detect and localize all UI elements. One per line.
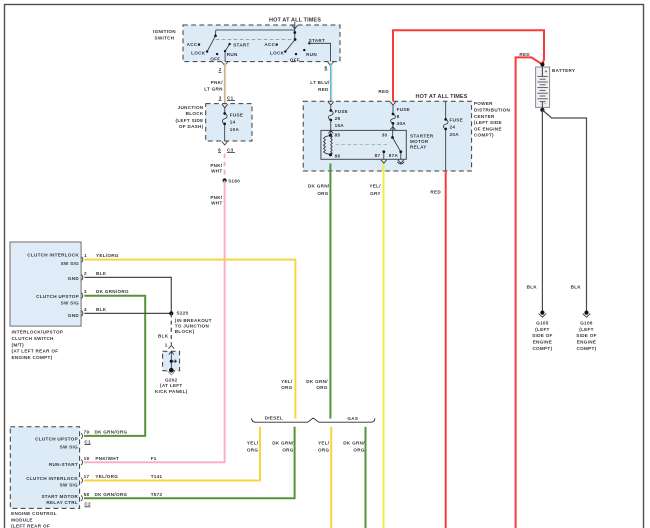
- svg-text:15A: 15A: [335, 123, 345, 128]
- wire DK GRN/ORG pin58 to brace: [84, 427, 295, 498]
- ignition switch pole 1 lever: [214, 34, 217, 37]
- wire BLK pin4 to S220: [84, 312, 171, 314]
- svg-text:G202: G202: [165, 378, 178, 383]
- ground G106: [584, 311, 588, 315]
- fuse 28 element: [328, 102, 334, 111]
- svg-text:SW SIG: SW SIG: [61, 301, 80, 306]
- svg-text:8: 8: [218, 147, 221, 152]
- svg-text:S220: S220: [177, 310, 189, 315]
- ECM pin 58 connector: [81, 495, 82, 501]
- svg-text:OFF: OFF: [210, 57, 220, 62]
- svg-text:BLK: BLK: [96, 307, 107, 312]
- svg-text:GND: GND: [68, 313, 79, 318]
- svg-text:ACC: ACC: [187, 42, 198, 47]
- svg-text:ORG: ORG: [281, 385, 292, 390]
- svg-text:YEL/ORG: YEL/ORG: [96, 253, 119, 258]
- svg-text:DK GRN/: DK GRN/: [306, 379, 328, 384]
- fuse 14 element: [222, 104, 228, 113]
- svg-text:C2: C2: [84, 502, 91, 507]
- ECM pin 19 connector: [81, 460, 82, 466]
- svg-text:FUSE: FUSE: [335, 109, 348, 114]
- svg-text:CLUTCH INTERLOCK: CLUTCH INTERLOCK: [27, 252, 79, 257]
- ECM pin 79 connector: [81, 433, 82, 439]
- svg-text:SWITCH: SWITCH: [155, 35, 175, 40]
- relay pin 87: [382, 150, 385, 153]
- svg-text:BLK: BLK: [96, 271, 107, 276]
- svg-text:C1: C1: [84, 439, 91, 444]
- ignition switch pole 2 lever: [293, 31, 296, 34]
- svg-text:TO JUNCTION: TO JUNCTION: [175, 324, 210, 329]
- svg-text:79: 79: [84, 430, 90, 435]
- svg-text:(LEFT: (LEFT: [535, 327, 550, 332]
- brace diesel/gas split: [252, 418, 375, 422]
- svg-text:ENGINE COMPT): ENGINE COMPT): [12, 355, 53, 360]
- svg-text:RUN: RUN: [306, 52, 317, 57]
- ignition switch box: [183, 25, 340, 62]
- svg-text:F1: F1: [151, 456, 157, 461]
- wire YEL/ORG gas branch: [330, 427, 332, 528]
- svg-text:40A: 40A: [397, 121, 407, 126]
- fuse 24 element: [445, 101, 447, 119]
- svg-text:GND: GND: [68, 276, 79, 281]
- svg-text:ACC: ACC: [264, 42, 275, 47]
- svg-text:ORG: ORG: [282, 447, 293, 452]
- svg-text:ORG: ORG: [353, 447, 364, 452]
- pin 2 connector: [82, 275, 83, 281]
- wire LT BLU/RED pin6 to PDC: [330, 63, 332, 101]
- svg-text:PNK/WHT: PNK/WHT: [95, 456, 119, 461]
- svg-text:FUSE: FUSE: [397, 107, 410, 112]
- svg-text:C3: C3: [227, 147, 234, 152]
- svg-text:CLUTCH UPSTOP: CLUTCH UPSTOP: [36, 294, 79, 299]
- svg-text:ORG: ORG: [318, 447, 329, 452]
- svg-text:START: START: [233, 42, 249, 47]
- wire YEL/GRY from relay 87: [383, 164, 385, 528]
- svg-text:MODULE: MODULE: [11, 517, 33, 522]
- svg-text:ORG: ORG: [316, 385, 327, 390]
- svg-text:RELAY CTRL: RELAY CTRL: [46, 500, 78, 505]
- svg-text:DK GRN/: DK GRN/: [272, 441, 294, 446]
- pin 2 exit arrow of ignition switch: [222, 62, 228, 66]
- wire RED battery feed (long right): [516, 57, 543, 528]
- wire YEL/ORG pin1: [84, 260, 295, 419]
- svg-text:3: 3: [219, 95, 222, 100]
- pole 1 START-RUN lever and output: [225, 44, 230, 62]
- svg-text:ENGINE: ENGINE: [577, 340, 596, 345]
- svg-text:85: 85: [335, 133, 341, 138]
- svg-text:86: 86: [335, 154, 341, 159]
- power distribution center box: [303, 101, 471, 171]
- wire feed bus inside ignition switch: [216, 30, 295, 40]
- svg-text:ENGINE CONTROL: ENGINE CONTROL: [11, 511, 57, 516]
- svg-text:RELAY: RELAY: [410, 144, 427, 149]
- svg-text:DK GRN/: DK GRN/: [308, 184, 330, 189]
- svg-text:1: 1: [84, 253, 87, 258]
- fuse 8 element: [390, 102, 396, 114]
- svg-text:DIESEL: DIESEL: [265, 415, 283, 420]
- svg-text:T572: T572: [151, 492, 163, 497]
- relay coil: [329, 134, 332, 137]
- svg-text:FUSE: FUSE: [450, 118, 463, 123]
- svg-text:+: +: [545, 69, 548, 74]
- svg-text:PNK/: PNK/: [210, 195, 223, 200]
- wire PNK/WHT dashed segment to S160: [224, 154, 226, 181]
- wire DK GRN/ORG gas branch: [365, 427, 367, 528]
- svg-text:S160: S160: [228, 179, 240, 184]
- pole 2 START output wire: [309, 43, 330, 61]
- wire PNK/WHT solid from S160 down to ECM pin 19: [84, 181, 225, 463]
- svg-text:OF ENGINE: OF ENGINE: [474, 126, 502, 131]
- ground G105: [540, 311, 544, 315]
- pin 1 connector: [82, 257, 83, 263]
- svg-text:8: 8: [397, 114, 400, 119]
- svg-text:(AT LEFT: (AT LEFT: [160, 383, 182, 388]
- svg-text:POWER: POWER: [474, 101, 493, 106]
- svg-text:SIDE OF: SIDE OF: [576, 333, 596, 338]
- svg-text:DK GRN/ORG: DK GRN/ORG: [95, 492, 128, 497]
- engine control module box: [10, 427, 79, 509]
- svg-text:HOT AT ALL TIMES: HOT AT ALL TIMES: [415, 94, 467, 100]
- svg-text:ENGINE: ENGINE: [533, 340, 552, 345]
- svg-text:STARTER: STARTER: [410, 134, 434, 139]
- svg-text:LOCK: LOCK: [270, 51, 285, 56]
- mechanical linkage dashed line: [216, 39, 295, 41]
- starter motor relay box: [321, 130, 406, 159]
- svg-text:RED: RED: [378, 89, 389, 94]
- svg-text:YEL/: YEL/: [247, 441, 259, 446]
- svg-text:4: 4: [84, 307, 87, 312]
- svg-text:START MOTOR: START MOTOR: [41, 494, 78, 499]
- svg-text:START: START: [309, 38, 325, 43]
- svg-text:YEL/ORG: YEL/ORG: [95, 474, 118, 479]
- pole 1 contacts: [198, 43, 200, 45]
- svg-text:24: 24: [450, 125, 456, 130]
- svg-text:3: 3: [84, 289, 87, 294]
- svg-text:DK GRN/: DK GRN/: [343, 441, 365, 446]
- svg-text:(M/T): (M/T): [12, 342, 25, 347]
- svg-text:GAS: GAS: [347, 416, 358, 421]
- svg-text:KICK PANEL): KICK PANEL): [155, 389, 188, 394]
- svg-text:DK GRN/ORG: DK GRN/ORG: [95, 430, 128, 435]
- node S220: [169, 311, 173, 315]
- pin 6 exit arrow of ignition switch: [328, 62, 334, 66]
- svg-text:WHT: WHT: [211, 168, 222, 173]
- svg-text:1: 1: [165, 342, 168, 347]
- svg-text:87: 87: [375, 153, 381, 158]
- interlock/upstop clutch switch box: [10, 242, 81, 326]
- svg-text:SW SIG: SW SIG: [60, 482, 79, 487]
- battery negative node: [541, 107, 543, 110]
- svg-text:WHT: WHT: [211, 200, 222, 205]
- svg-text:CLUTCH INTERLOCK: CLUTCH INTERLOCK: [26, 476, 78, 481]
- svg-text:14: 14: [230, 120, 236, 125]
- svg-text:CLUTCH UPSTOP: CLUTCH UPSTOP: [35, 437, 78, 442]
- svg-text:OF DASH): OF DASH): [179, 124, 204, 129]
- svg-text:GRY: GRY: [370, 191, 381, 196]
- svg-text:58: 58: [84, 492, 90, 497]
- svg-text:G105: G105: [536, 321, 549, 326]
- ECM pin 17 connector: [81, 478, 82, 484]
- svg-text:G106: G106: [580, 321, 593, 326]
- wire PNK/LT GRN pin2 to junction block: [224, 63, 226, 104]
- svg-text:20A: 20A: [450, 132, 460, 137]
- svg-text:(AT LEFT REAR OF: (AT LEFT REAR OF: [12, 349, 59, 354]
- svg-text:17: 17: [84, 474, 90, 479]
- svg-text:LT BLU/: LT BLU/: [310, 80, 330, 85]
- svg-text:CENTER: CENTER: [474, 114, 495, 119]
- wire RED from fuse 24 down: [445, 171, 447, 528]
- svg-text:SW SIG: SW SIG: [60, 444, 79, 449]
- svg-text:10A: 10A: [230, 127, 240, 132]
- wire DK GRN/ORG from relay 86: [329, 164, 331, 419]
- wire BLK battery to G105: [541, 110, 543, 313]
- svg-text:(LEFT SIDE: (LEFT SIDE: [175, 118, 203, 123]
- svg-text:RED: RED: [318, 87, 329, 92]
- wire DK GRN/ORG pin3 to ECM pin79: [84, 296, 145, 436]
- svg-text:DISTRIBUTION: DISTRIBUTION: [474, 108, 511, 113]
- svg-text:2: 2: [84, 271, 87, 276]
- wire BLK battery to G106: [542, 110, 586, 313]
- svg-text:BLOCK: BLOCK: [186, 111, 204, 116]
- svg-text:ORG: ORG: [317, 191, 328, 196]
- svg-text:RED: RED: [430, 189, 441, 194]
- node S160: [223, 178, 227, 182]
- pin 4 connector: [82, 311, 83, 317]
- svg-text:COMPT): COMPT): [577, 346, 597, 351]
- svg-text:T141: T141: [151, 474, 163, 479]
- svg-text:IGNITION: IGNITION: [153, 29, 176, 34]
- wire BLK pin2 to S220: [84, 277, 171, 313]
- svg-text:RUN: RUN: [227, 52, 238, 57]
- wire BLK dashed S220 to G202: [170, 313, 172, 343]
- svg-text:BLK: BLK: [571, 285, 582, 290]
- junction block box: [206, 104, 252, 141]
- svg-text:OFF: OFF: [290, 57, 300, 62]
- svg-text:BLK: BLK: [527, 285, 538, 290]
- svg-text:30: 30: [382, 133, 388, 138]
- relay pin 85 entry arrow: [328, 131, 333, 136]
- svg-text:RUN-START: RUN-START: [49, 462, 78, 467]
- G202 breakout box: [163, 351, 180, 371]
- svg-text:YEL/: YEL/: [281, 379, 293, 384]
- svg-text:MOTOR: MOTOR: [410, 139, 429, 144]
- svg-text:DK GRN/ORG: DK GRN/ORG: [96, 289, 129, 294]
- svg-text:LT GRN: LT GRN: [204, 86, 223, 91]
- relay linkage dashed line: [336, 144, 390, 146]
- svg-text:(LEFT SIDE: (LEFT SIDE: [474, 120, 502, 125]
- wire YEL/ORG pin17 to brace: [84, 427, 260, 481]
- svg-text:87A: 87A: [389, 153, 399, 158]
- battery positive node: [540, 62, 544, 66]
- svg-text:INTERLOCK/UPSTOP: INTERLOCK/UPSTOP: [12, 330, 64, 335]
- pin 3 connector: [82, 293, 83, 299]
- svg-text:PNK/: PNK/: [211, 80, 224, 85]
- svg-text:YEL/: YEL/: [369, 184, 381, 189]
- battery: [536, 67, 550, 107]
- svg-text:YEL/: YEL/: [318, 441, 330, 446]
- svg-text:FUSE: FUSE: [230, 113, 243, 118]
- svg-text:PNK/: PNK/: [210, 163, 223, 168]
- svg-text:2: 2: [219, 67, 222, 72]
- svg-text:RED: RED: [519, 52, 530, 57]
- svg-text:COMPT): COMPT): [532, 346, 552, 351]
- svg-text:C1: C1: [227, 95, 234, 100]
- pole 2 contacts: [276, 43, 278, 45]
- svg-text:19: 19: [84, 456, 90, 461]
- svg-text:LOCK: LOCK: [191, 51, 206, 56]
- svg-text:(IN BREAKOUT: (IN BREAKOUT: [175, 318, 212, 323]
- wire RED from battery to fuse 8: [393, 30, 544, 101]
- power feed arrow into ignition switch: [292, 22, 298, 30]
- svg-text:BLOCK): BLOCK): [175, 329, 195, 334]
- svg-text:28: 28: [335, 116, 341, 121]
- svg-text:SW SIG: SW SIG: [61, 261, 80, 266]
- svg-text:CLUTCH SWITCH: CLUTCH SWITCH: [12, 336, 55, 341]
- svg-text:(LEFT: (LEFT: [579, 327, 594, 332]
- svg-text:BATTERY: BATTERY: [552, 68, 575, 73]
- svg-text:BLK: BLK: [158, 333, 169, 338]
- svg-text:SIDE OF: SIDE OF: [532, 333, 552, 338]
- svg-text:(LEFT REAR OF: (LEFT REAR OF: [11, 524, 50, 528]
- relay pin 87A with unconnected cup: [399, 150, 402, 153]
- svg-text:COMPT): COMPT): [474, 133, 494, 138]
- svg-text:6: 6: [325, 65, 328, 70]
- svg-text:JUNCTION: JUNCTION: [178, 105, 204, 110]
- relay pin 30 and lever: [390, 123, 395, 137]
- svg-text:ORG: ORG: [247, 447, 258, 452]
